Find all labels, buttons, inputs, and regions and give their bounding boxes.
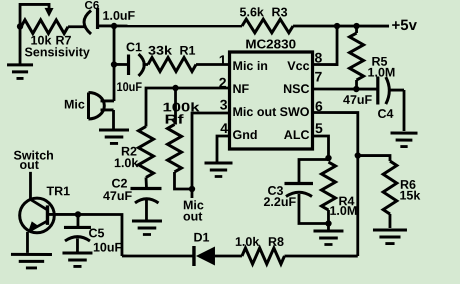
svg-text:47uF: 47uF [343,93,373,107]
svg-text:SWO: SWO [280,105,310,119]
svg-text:R8: R8 [268,235,284,249]
svg-text:10uF: 10uF [117,80,143,94]
svg-text:1.0k: 1.0k [235,235,259,249]
svg-text:Mic: Mic [64,98,85,112]
resistor R3 5.6k [242,19,293,33]
wire Rf bottom [174,172,192,189]
wire mic gnd [112,110,115,129]
capacitor C6 [84,10,91,34]
wire Vcc riser [313,26,338,65]
svg-text:15k: 15k [399,189,420,203]
svg-text:Mic out: Mic out [233,105,278,119]
capacitor C3 2.2uF [299,160,329,184]
svg-text:1.0M: 1.0M [368,65,396,79]
svg-text:MC2830: MC2830 [245,36,296,51]
ground G3 [373,229,407,232]
resistor R1 33k [148,57,196,71]
node N3 [353,23,359,29]
ground G9 [204,161,232,164]
svg-text:Mic in: Mic in [233,59,268,73]
wire top rail left [114,25,242,28]
node N6 [325,155,331,161]
wire Rf riser [174,88,177,125]
resistor R8 1.0k [242,248,285,264]
microphone Mic [87,92,90,119]
resistor R5 1.0M [355,26,358,33]
svg-text:1.0uF: 1.0uF [103,9,136,23]
capacitor C4 47uF [376,77,379,105]
svg-text:out: out [19,158,39,172]
svg-text:1.0k: 1.0k [114,156,138,170]
svg-text:6: 6 [315,98,323,114]
svg-text:NSC: NSC [283,82,309,96]
svg-text:Vcc: Vcc [287,59,309,73]
svg-text:NF: NF [233,82,250,96]
svg-text:Sensisivity: Sensisivity [25,45,90,59]
wire emitter [26,232,29,253]
potentiometer R7 body 10k [21,20,68,34]
svg-text:R3: R3 [272,5,288,19]
capacitor C5 10uF [77,214,80,226]
capacitor C1 10uF [114,63,128,66]
IC U1 MC2830 box [229,52,312,149]
diode D1 [196,246,215,265]
svg-text:TR1: TR1 [46,184,70,198]
resistor R4 1.0M [321,162,335,210]
svg-text:ALC: ALC [284,128,310,142]
resistor R6 15k [383,161,397,214]
wire bottom left [122,255,194,258]
resistor Rf 100k [167,124,181,172]
svg-text:2.2uF: 2.2uF [263,195,296,209]
wire collector [29,172,32,201]
ground G2 [391,132,418,135]
wire micout stub [191,189,194,198]
svg-text:C6: C6 [85,0,100,12]
svg-text:R1: R1 [180,44,196,58]
node N10 [172,85,178,91]
node N4 [353,86,359,92]
svg-text:4: 4 [220,120,228,136]
svg-text:out: out [183,209,203,223]
svg-text:3: 3 [220,96,228,112]
node N2 [334,23,340,29]
node R7-left [17,23,23,29]
wire Gnd pin4 [217,136,230,162]
svg-text:47uF: 47uF [103,189,133,203]
svg-text:5: 5 [315,120,323,136]
wire SWO [312,113,357,257]
ground G7 [99,128,129,131]
svg-text:10uF: 10uF [93,241,123,255]
ground G5 [62,251,92,254]
svg-text:1: 1 [219,52,227,68]
node N8 [75,211,81,217]
svg-text:7: 7 [315,69,323,85]
svg-text:C5: C5 [88,226,104,240]
node N11 [189,186,195,192]
wire D1-R8 [215,255,242,258]
svg-text:C4: C4 [378,107,394,121]
ground G8 [132,219,162,222]
svg-text:2: 2 [219,74,227,90]
wire NF [146,88,230,127]
ground G6 [11,253,52,256]
node N9 [111,61,117,67]
ground G4 [327,224,330,231]
svg-text:1.0M: 1.0M [329,204,357,218]
svg-text:D1: D1 [193,230,209,244]
svg-text:33k: 33k [148,44,172,58]
wire R6 branch [358,156,390,162]
wire pin3 [192,113,230,189]
svg-text:8: 8 [315,50,323,66]
svg-text:Gnd: Gnd [233,128,258,142]
svg-text:Rf: Rf [165,112,185,127]
node N1 [111,23,117,29]
wire bottom right [284,255,357,258]
transistor TR1 [20,198,55,233]
wire top rail right [293,25,389,28]
wire mic riser [113,26,116,101]
wire pin1 [196,63,230,66]
node N7 [325,220,331,226]
svg-text:+5v: +5v [392,17,418,34]
wire NSC [313,88,378,91]
svg-text:C1: C1 [126,40,142,54]
potentiometer R7 wiper loop [20,4,49,25]
wire ALC [312,136,328,158]
capacitor C2 47uF [130,187,161,190]
node N5 [355,152,361,158]
ground G1 [19,26,22,64]
resistor R2 1.0k [138,126,153,177]
wire left riser [47,214,122,256]
svg-text:5.6k: 5.6k [240,5,264,19]
